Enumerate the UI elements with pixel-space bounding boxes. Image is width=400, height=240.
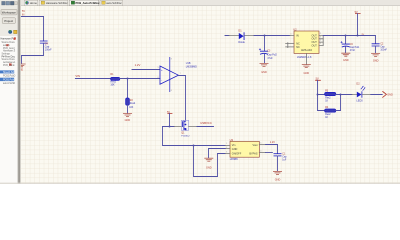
svg-text:1K: 1K — [325, 117, 328, 119]
svg-text:PCB_Auto.PcbDoc: PCB_Auto.PcbDoc — [76, 1, 101, 5]
document tab bar — [21, 0, 400, 6]
svg-text:4: 4 — [171, 90, 172, 92]
power port GND arrow right — [383, 92, 387, 98]
capacitor C4 — [40, 41, 47, 43]
wire gate left segment — [163, 126, 175, 128]
svg-text:OUT: OUT — [312, 44, 318, 47]
svg-text:GND: GND — [206, 167, 212, 170]
svg-text:P1008-2: P1008-2 — [181, 136, 190, 138]
schematic content — [18, 10, 393, 181]
Project button — [2, 18, 15, 24]
regulator U3 — [225, 138, 265, 161]
junction at Vin net — [193, 145, 195, 147]
value labels R3 Res2 1K — [325, 91, 331, 103]
wire 5V down to rail — [357, 14, 359, 36]
svg-text:5: 5 — [260, 143, 261, 145]
wire R2 to ground — [127, 105, 129, 113]
svg-text:1: 1 — [226, 143, 227, 145]
value labels C3 Cap Pol2 47uF — [267, 51, 277, 60]
svg-text:1K: 1K — [325, 101, 328, 103]
svg-text:-: - — [161, 78, 162, 82]
value labels U1B LM358MD — [186, 62, 197, 68]
wire junction down to C6 — [345, 36, 347, 44]
op-amp U1 — [158, 57, 181, 92]
svg-text:Vout: Vout — [252, 144, 257, 147]
capacitor C3 polarized — [259, 49, 267, 55]
wire junction down to R2 — [127, 79, 129, 99]
svg-text:4: 4 — [320, 40, 321, 42]
wire USBVCC — [197, 126, 214, 128]
junction at 5V rail — [357, 35, 359, 37]
svg-text:USBVCC: USBVCC — [200, 121, 212, 125]
wire U2 output rail — [323, 36, 375, 44]
svg-text:GND: GND — [343, 59, 349, 62]
svg-text:Source Docu: Source Docu — [2, 58, 16, 61]
wire C6 to ground — [345, 47, 347, 53]
svg-text:Res2: Res2 — [325, 98, 331, 100]
svg-text:3: 3 — [226, 152, 227, 154]
tab auto.SchDoc — [100, 0, 123, 6]
svg-text:47uF: 47uF — [267, 58, 273, 60]
wire R1 to op-amp — [120, 78, 160, 80]
svg-text:Res2: Res2 — [325, 114, 331, 116]
wire diode to U2 — [254, 35, 290, 37]
tab Hareware.SchDoc — [39, 0, 68, 6]
svg-text:AMS-ADJ: AMS-ADJ — [301, 49, 313, 52]
value labels C1 Cap 1uF — [282, 154, 287, 162]
project file list — [0, 36, 18, 184]
svg-text:Sheet1.Sch: Sheet1.Sch — [3, 71, 16, 74]
svg-text:2: 2 — [226, 147, 227, 149]
ground under C1 — [273, 171, 281, 174]
bottom window edge — [0, 183, 400, 184]
svg-text:GND: GND — [232, 148, 238, 151]
svg-text:Cap Pol2: Cap Pol2 — [267, 55, 277, 57]
svg-text:IN: IN — [296, 34, 299, 37]
svg-text:GND: GND — [125, 119, 131, 122]
svg-text:auto.SchDoc: auto.SchDoc — [106, 1, 122, 5]
svg-text:100nF: 100nF — [380, 49, 387, 51]
svg-text:Vin: Vin — [232, 144, 236, 147]
junction LED row — [340, 94, 342, 96]
ground under C3 — [260, 63, 268, 66]
svg-text:GND: GND — [304, 72, 310, 75]
svg-text:PCB_Auto [: PCB_Auto [ — [3, 47, 15, 50]
junction gate wire — [169, 126, 171, 128]
ground under U3 — [205, 158, 213, 161]
wire junction down to C3 — [264, 36, 266, 51]
wire enable loop — [194, 146, 226, 177]
value labels C2 Cap 100nF — [380, 43, 387, 51]
LED D2 — [352, 86, 371, 98]
svg-text:5: 5 — [158, 67, 159, 69]
svg-text:Res2: Res2 — [130, 103, 136, 105]
ground under R2 — [123, 114, 131, 117]
svg-text:10K: 10K — [129, 107, 134, 109]
wire down to C4 — [43, 17, 45, 42]
ground under C2 — [372, 53, 380, 56]
svg-text:1: 1 — [291, 34, 292, 36]
svg-text:auto.S: auto.S — [3, 44, 10, 47]
svg-text:10K: 10K — [110, 83, 115, 86]
panel toolbar icons — [2, 1, 6, 5]
svg-text:GND: GND — [261, 71, 267, 74]
junction R3 left — [317, 94, 319, 96]
wire LED to GND port — [371, 94, 382, 96]
svg-text:Diode: Diode — [238, 41, 245, 44]
svg-text:7: 7 — [180, 73, 181, 75]
wire 1.2V to op-amp — [132, 69, 160, 71]
svg-text:Home: Home — [30, 1, 38, 5]
wire VIN to R1 — [75, 78, 110, 80]
svg-text:PCB_blank: PCB_blank — [3, 65, 15, 67]
svg-text:BYPAS: BYPAS — [249, 153, 257, 156]
svg-text:auto1.SchD: auto1.SchD — [3, 82, 15, 85]
svg-text:100nF: 100nF — [45, 48, 52, 51]
wire C3 to ground — [264, 54, 266, 63]
svg-text:NC: NC — [296, 46, 300, 49]
svg-text:1uF: 1uF — [282, 160, 287, 162]
svg-text:Workspace: Workspace — [2, 10, 16, 14]
svg-text:47uF: 47uF — [350, 50, 356, 52]
svg-text:LM358MD: LM358MD — [186, 66, 197, 69]
svg-text:3: 3 — [320, 36, 321, 38]
wire U3 GND pin — [209, 149, 226, 158]
wire op-amp output — [178, 76, 185, 121]
svg-text:GND: GND — [373, 59, 379, 62]
resistor R4 — [325, 109, 336, 112]
tab PCB_Auto.PcbDoc (active) — [69, 0, 98, 6]
ground clipped at left edge — [18, 64, 25, 67]
wire into diode D1 — [225, 35, 229, 37]
wire C1 to ground — [277, 156, 279, 171]
svg-text:ON/OFF: ON/OFF — [232, 153, 242, 156]
wire top-left horizontal — [21, 16, 44, 18]
svg-text:2: 2 — [320, 33, 321, 35]
svg-text:Cap Pol1: Cap Pol1 — [350, 47, 360, 49]
capacitor C2 — [372, 44, 379, 46]
ground under C6 — [342, 53, 350, 56]
Workspace button — [1, 9, 17, 15]
tab Home — [24, 0, 38, 6]
wire to R3 — [318, 94, 325, 96]
node VCC clipped top-left — [22, 10, 25, 16]
value labels R4 Res2 1K — [325, 107, 331, 119]
resistor R1 — [111, 77, 120, 80]
ground under U2 — [302, 65, 310, 68]
wire 5V stub down — [169, 114, 171, 127]
svg-text:PCB2.PcbD: PCB2.PcbD — [3, 75, 16, 77]
svg-text:1.2V: 1.2V — [270, 141, 275, 144]
transistor Q1 — [174, 120, 197, 130]
wire R3 right to LED row — [336, 95, 341, 111]
svg-text:LP2985: LP2985 — [230, 159, 239, 161]
svg-text:6: 6 — [158, 77, 159, 79]
panel icon row — [8, 30, 12, 34]
junction at C3 — [264, 35, 266, 37]
svg-text:Hareware.S: Hareware.S — [3, 50, 16, 53]
svg-text:U3: U3 — [230, 138, 234, 142]
svg-text:Hareware.SchDoc: Hareware.SchDoc — [46, 1, 68, 5]
resistor R3 — [325, 92, 336, 95]
diode D1 — [229, 32, 254, 40]
svg-text:Cap: Cap — [380, 46, 385, 48]
svg-text:GND: GND — [387, 94, 393, 97]
value labels C6 Cap Pol1 47uF — [350, 44, 360, 52]
wire to LED — [341, 94, 353, 96]
svg-text:workspace1: workspace1 — [3, 61, 16, 64]
junction at R2 top — [127, 78, 129, 80]
value labels C4 Cap 100nF — [45, 42, 52, 51]
svg-text:5: 5 — [320, 43, 321, 45]
svg-text:VIN: VIN — [75, 74, 80, 78]
svg-text:Project: Project — [4, 19, 13, 23]
svg-text:1.2V: 1.2V — [135, 63, 141, 67]
svg-text:GND: GND — [275, 178, 281, 181]
wire U3 Vout — [266, 145, 278, 154]
svg-text:4: 4 — [260, 150, 261, 152]
value labels R1 Res2 10K — [110, 73, 116, 87]
svg-text:LED0: LED0 — [356, 100, 363, 103]
panel splitter border — [17, 0, 20, 184]
wire U3 pin4 stub — [266, 152, 273, 154]
wire gate loop down-right to U3 — [163, 127, 226, 146]
svg-text:P# Free Doc: P# Free Doc — [2, 55, 16, 58]
junction at C6 — [345, 35, 347, 37]
svg-text:8: 8 — [171, 59, 172, 61]
svg-text:LM2940S-1.8: LM2940S-1.8 — [297, 56, 312, 59]
svg-text:U2: U2 — [293, 28, 297, 32]
svg-text:PCB1.PcbD: PCB1.PcbD — [3, 79, 16, 81]
capacitor C6 polarized — [341, 41, 350, 47]
resistor R2 — [126, 98, 130, 105]
left projects panel — [0, 0, 18, 184]
capacitor C1 — [274, 154, 281, 156]
schematic sheet background — [21, 0, 400, 184]
wire below C4 — [22, 43, 44, 63]
value labels R2 Res2 10K — [129, 100, 136, 109]
wire C2 to ground — [375, 46, 377, 53]
regulator U2 — [286, 28, 324, 65]
svg-text:Source Docu: Source Docu — [2, 41, 16, 44]
svg-text:Cap: Cap — [282, 157, 287, 159]
wire 5V down LED branch — [318, 80, 325, 110]
